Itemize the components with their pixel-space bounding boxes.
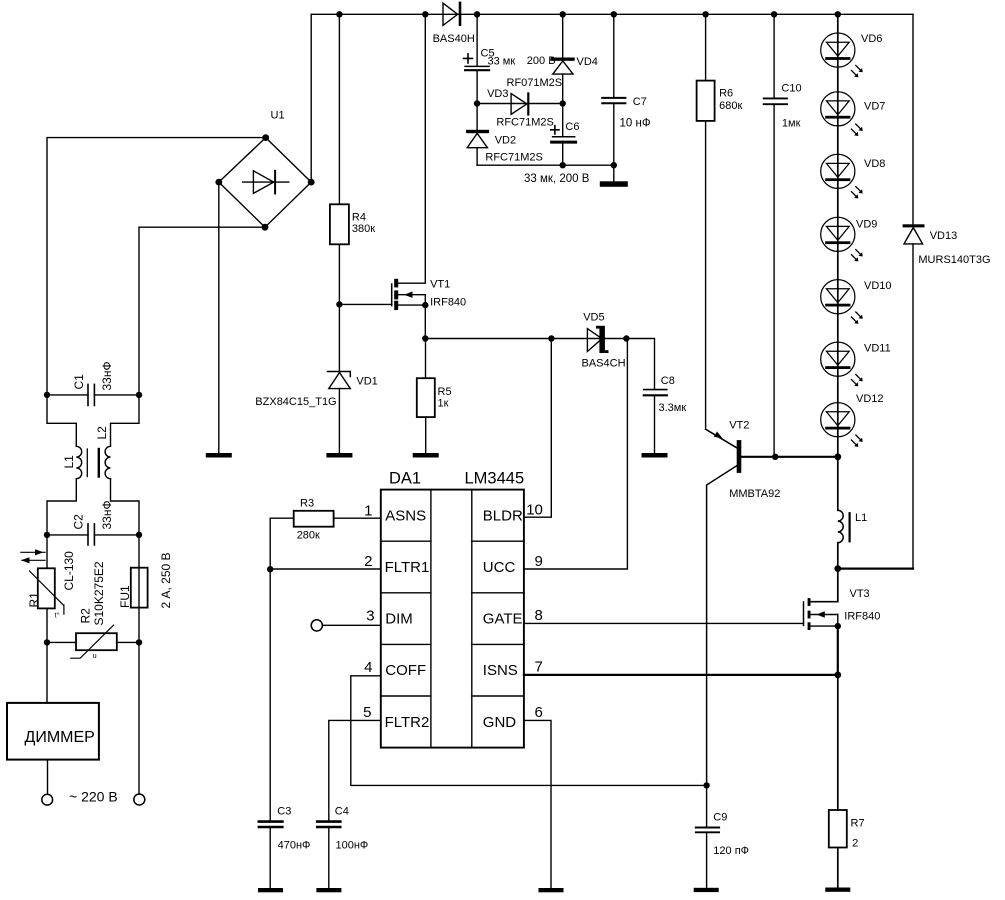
svg-text:u: u bbox=[93, 651, 97, 660]
terminal: mains left bbox=[42, 794, 53, 805]
resistor R4 380k bbox=[330, 14, 375, 244]
svg-text:LM3445: LM3445 bbox=[465, 470, 525, 488]
svg-text:FU1: FU1 bbox=[118, 585, 132, 608]
svg-text:R4: R4 bbox=[352, 212, 366, 224]
LED VD10 bbox=[821, 280, 892, 324]
svg-text:VD7: VD7 bbox=[864, 100, 885, 112]
svg-text:GATE: GATE bbox=[483, 611, 523, 628]
capacitor C1 33nF bbox=[44, 361, 142, 405]
wire: pin 9 UCC riser bbox=[524, 339, 628, 570]
svg-text:C2: C2 bbox=[72, 514, 86, 530]
svg-text:1: 1 bbox=[364, 503, 372, 520]
wire: pin 4 COFF to C9 node bbox=[351, 676, 707, 786]
ground (R7) bbox=[825, 888, 850, 892]
svg-text:BZX84C15_T1G: BZX84C15_T1G bbox=[255, 396, 336, 408]
label: ~220V mains bbox=[69, 789, 118, 805]
svg-text:VD9: VD9 bbox=[856, 219, 877, 231]
capacitor C2 33nF bbox=[44, 500, 142, 545]
wire: pin 3 DIM stub bbox=[322, 624, 380, 626]
resistor R3 280k bbox=[294, 498, 334, 542]
svg-text:BLDR: BLDR bbox=[483, 507, 523, 524]
wire: gate tap to VT1 bbox=[339, 303, 391, 305]
svg-text:7: 7 bbox=[535, 659, 543, 676]
label: C6 value bbox=[524, 173, 590, 185]
svg-text:33нФ: 33нФ bbox=[100, 361, 114, 390]
svg-text:C7: C7 bbox=[633, 96, 647, 108]
transistor VT1 IRF840 MOSFET bbox=[392, 14, 466, 338]
bridge rectifier U1 bbox=[215, 110, 314, 231]
wire: VD2/C6/C7 common bottom bbox=[477, 162, 617, 168]
terminal: mains right bbox=[134, 794, 145, 805]
wire: bridge positive output riser bbox=[310, 14, 312, 182]
wire: VT2 base line bbox=[741, 453, 841, 460]
node: top bus junctions bbox=[336, 11, 841, 17]
ground (C8) bbox=[642, 453, 668, 458]
inductor L1 (mains filter choke winding) bbox=[62, 446, 82, 478]
wire: C2 left down to R1 bbox=[46, 535, 48, 568]
zener diode VD1 BZX84C15 bbox=[255, 372, 378, 408]
svg-text:VD1: VD1 bbox=[356, 376, 377, 388]
svg-text:3: 3 bbox=[366, 607, 374, 624]
svg-text:RFC71M2S: RFC71M2S bbox=[496, 116, 553, 128]
svg-text:RF071M2S: RF071M2S bbox=[507, 77, 563, 89]
svg-text:DA1: DA1 bbox=[389, 470, 421, 488]
svg-text:1мк: 1мк bbox=[782, 117, 801, 129]
svg-text:VD10: VD10 bbox=[864, 280, 892, 292]
svg-text:C6: C6 bbox=[565, 121, 579, 133]
wire: R3 to FLTR1 node bbox=[270, 518, 294, 569]
wire: C5 bottom to VD4 bottom bbox=[474, 100, 566, 106]
wire: VT3 source to ISNS node bbox=[834, 626, 841, 678]
wire: top DC+ bus bbox=[311, 13, 913, 15]
diode VD13 MURS140T3G bbox=[903, 14, 991, 568]
wire: pin 8 GATE line to VT3 bbox=[524, 622, 804, 624]
terminal: DIM input bbox=[311, 620, 322, 631]
pin numbers DA1 bbox=[363, 502, 543, 721]
svg-text:VT3: VT3 bbox=[850, 588, 870, 600]
inductor L1 (output) bbox=[838, 457, 867, 569]
svg-text:C1: C1 bbox=[72, 374, 86, 390]
svg-text:R3: R3 bbox=[300, 498, 314, 510]
op-amp/IC DA1 LM3445 bbox=[381, 470, 524, 748]
wire: C2 right down through fuse bbox=[138, 535, 140, 643]
svg-text:C3: C3 bbox=[277, 806, 291, 818]
svg-text:L1: L1 bbox=[855, 512, 867, 524]
svg-text:t°: t° bbox=[55, 611, 60, 620]
svg-text:9: 9 bbox=[535, 553, 543, 570]
svg-text:MMBTA92: MMBTA92 bbox=[729, 488, 780, 500]
diode VD2 RFC71M2S bbox=[466, 104, 543, 166]
svg-text:R7: R7 bbox=[851, 818, 865, 830]
svg-text:BAS4CH: BAS4CH bbox=[582, 358, 626, 370]
svg-text:C8: C8 bbox=[661, 375, 675, 387]
svg-text:VD11: VD11 bbox=[864, 343, 891, 355]
wire: pin 6 GND to ground bbox=[524, 720, 551, 888]
svg-text:MURS140T3G: MURS140T3G bbox=[918, 254, 990, 266]
LED VD8 bbox=[821, 154, 886, 198]
wire: varistor node to dimmer bbox=[46, 642, 48, 703]
wire: pin 10 BLDR riser bbox=[524, 339, 551, 518]
transistor VT3 IRF840 MOSFET bbox=[804, 569, 881, 630]
wire: C1 left to choke L1 bbox=[47, 395, 76, 446]
wire: R4 to VD1 bbox=[336, 244, 342, 371]
LED VD9 bbox=[821, 217, 878, 261]
svg-text:VD4: VD4 bbox=[577, 56, 598, 68]
transistor VT2 MMBTA92 PNP bbox=[706, 419, 781, 785]
svg-text:4: 4 bbox=[364, 659, 372, 676]
resistor R7 2 bbox=[829, 675, 865, 888]
svg-text:BAS40H: BAS40H bbox=[433, 33, 475, 45]
svg-text:FLTR2: FLTR2 bbox=[385, 714, 430, 731]
wire: R1 to varistor node bbox=[46, 608, 48, 642]
capacitor C10 1uF bbox=[764, 14, 802, 457]
diode VD4 RF071M2S bbox=[507, 14, 598, 103]
svg-text:L2: L2 bbox=[95, 426, 109, 440]
svg-text:2 А, 250 В: 2 А, 250 В bbox=[159, 552, 173, 608]
svg-text:8: 8 bbox=[535, 607, 543, 624]
svg-text:RFC71M2S: RFC71M2S bbox=[485, 152, 542, 164]
svg-text:100нФ: 100нФ bbox=[336, 840, 369, 852]
wire: VD1 to ground bbox=[338, 389, 340, 453]
LED VD12 bbox=[821, 393, 884, 447]
svg-text:IRF840: IRF840 bbox=[430, 297, 466, 309]
wire: L1 bottom to VD13 bbox=[834, 565, 913, 572]
svg-text:UCC: UCC bbox=[483, 559, 516, 576]
capacitor C6 33uF 200V bbox=[551, 104, 580, 166]
svg-text:VD13: VD13 bbox=[930, 230, 958, 242]
svg-text:ДИММЕР: ДИММЕР bbox=[25, 729, 95, 746]
wire: bridge negative to ground bbox=[218, 182, 220, 453]
fuse FU1 2A 250V bbox=[118, 552, 173, 608]
svg-text:1к: 1к bbox=[438, 398, 449, 410]
svg-text:VD2: VD2 bbox=[495, 134, 516, 146]
ground (C4) bbox=[316, 888, 341, 892]
ground (C9) bbox=[694, 888, 719, 892]
ground (C7) bbox=[600, 181, 628, 187]
thermistor R1 CL-130 bbox=[21, 549, 76, 619]
ground (GND pin) bbox=[539, 888, 564, 892]
wire: AC input bottom corner to C1 right bbox=[139, 227, 265, 395]
svg-text:33 мк: 33 мк bbox=[488, 56, 516, 68]
svg-text:470нФ: 470нФ bbox=[278, 840, 311, 852]
inductor L2 (mains filter choke winding) bbox=[95, 426, 111, 479]
wire: pin 5 FLTR2 to C4 bbox=[329, 720, 381, 820]
svg-text:10: 10 bbox=[526, 502, 543, 519]
wire: right branch to right mains terminal bbox=[138, 642, 140, 794]
svg-text:VD6: VD6 bbox=[861, 33, 882, 45]
ground (VD1) bbox=[326, 453, 352, 458]
svg-text:2: 2 bbox=[364, 553, 372, 570]
svg-text:680к: 680к bbox=[719, 100, 742, 112]
svg-text:DIM: DIM bbox=[385, 611, 413, 628]
svg-text:VT1: VT1 bbox=[430, 279, 450, 291]
svg-text:2: 2 bbox=[852, 838, 858, 850]
svg-text:33 мк, 200 В: 33 мк, 200 В bbox=[524, 173, 590, 185]
capacitor C5 33uF 200V bbox=[464, 14, 556, 103]
wire: C1 right to choke L2 bbox=[111, 395, 140, 446]
wire: AC input top corner to C1 left bbox=[47, 138, 266, 395]
svg-text:6: 6 bbox=[535, 704, 543, 721]
capacitor C3 470nF bbox=[259, 806, 311, 889]
LED VD11 bbox=[821, 342, 891, 386]
svg-text:GND: GND bbox=[483, 714, 517, 731]
svg-text:C9: C9 bbox=[713, 812, 727, 824]
svg-text:280к: 280к bbox=[297, 529, 320, 541]
dimmer box bbox=[7, 703, 99, 760]
wire: pin 2 FLTR1 to C3 bbox=[267, 566, 381, 820]
capacitor C9 120pF bbox=[696, 782, 749, 888]
svg-text:R6: R6 bbox=[719, 88, 733, 100]
diode VD5 BAS4CH bbox=[582, 312, 626, 370]
wire: pin 7 ISNS line to R7 node bbox=[524, 674, 838, 676]
LED VD7 bbox=[821, 92, 886, 136]
svg-text:L1: L1 bbox=[62, 455, 76, 469]
LED VD6 bbox=[821, 33, 883, 77]
wire: pin 1 stub bbox=[334, 517, 381, 519]
wire: L1 bottom to C2 left bbox=[47, 479, 76, 535]
svg-text:COFF: COFF bbox=[385, 662, 426, 679]
varistor R2 S10K275E2 bbox=[44, 561, 142, 660]
svg-text:3.3мк: 3.3мк bbox=[659, 402, 687, 414]
svg-text:33нФ: 33нФ bbox=[100, 500, 114, 529]
svg-text:R2: R2 bbox=[78, 608, 92, 624]
capacitor C4 100nF bbox=[317, 806, 368, 889]
wire: VT1 source node to VD5 and C8 bbox=[422, 335, 654, 389]
wire: L2 bottom to C2 right bbox=[111, 479, 140, 535]
wire: dimmer to left mains terminal bbox=[47, 760, 49, 795]
svg-text:S10K275E2: S10K275E2 bbox=[92, 561, 106, 625]
svg-text:C4: C4 bbox=[335, 806, 349, 818]
diode BAS40H bbox=[433, 3, 475, 45]
svg-text:IRF840: IRF840 bbox=[844, 611, 880, 623]
resistor R6 680k bbox=[697, 14, 743, 429]
svg-text:10 нФ: 10 нФ bbox=[620, 118, 651, 130]
svg-text:5: 5 bbox=[363, 704, 371, 721]
svg-text:ISNS: ISNS bbox=[483, 662, 518, 679]
svg-text:R5: R5 bbox=[438, 386, 452, 398]
capacitor C8 3.3uF bbox=[644, 375, 687, 453]
svg-text:200 В: 200 В bbox=[527, 55, 556, 67]
wire: LED string vertical bbox=[837, 14, 839, 457]
resistor R5 1k bbox=[417, 339, 452, 454]
ground (R5) bbox=[413, 453, 439, 458]
svg-text:ASNS: ASNS bbox=[385, 507, 426, 524]
svg-text:VD12: VD12 bbox=[856, 393, 884, 405]
diode VD3 RFC71M2S bbox=[487, 88, 554, 129]
ground (bridge U1) bbox=[206, 453, 232, 458]
svg-text:CL-130: CL-130 bbox=[62, 551, 76, 591]
capacitor C7 10nF bbox=[602, 14, 651, 181]
svg-text:VD8: VD8 bbox=[864, 158, 885, 170]
svg-text:120 пФ: 120 пФ bbox=[713, 845, 749, 857]
choke core bbox=[87, 449, 99, 477]
svg-text:380к: 380к bbox=[352, 223, 375, 235]
svg-text:C10: C10 bbox=[781, 83, 801, 95]
svg-text:VD3: VD3 bbox=[487, 88, 508, 100]
svg-text:VD5: VD5 bbox=[583, 312, 604, 324]
svg-text:VT2: VT2 bbox=[729, 419, 749, 431]
svg-text:U1: U1 bbox=[271, 110, 285, 122]
svg-text:~ 220 В: ~ 220 В bbox=[69, 789, 118, 805]
svg-text:R1: R1 bbox=[27, 592, 41, 608]
ground (C3) bbox=[258, 888, 283, 892]
svg-text:FLTR1: FLTR1 bbox=[385, 559, 430, 576]
